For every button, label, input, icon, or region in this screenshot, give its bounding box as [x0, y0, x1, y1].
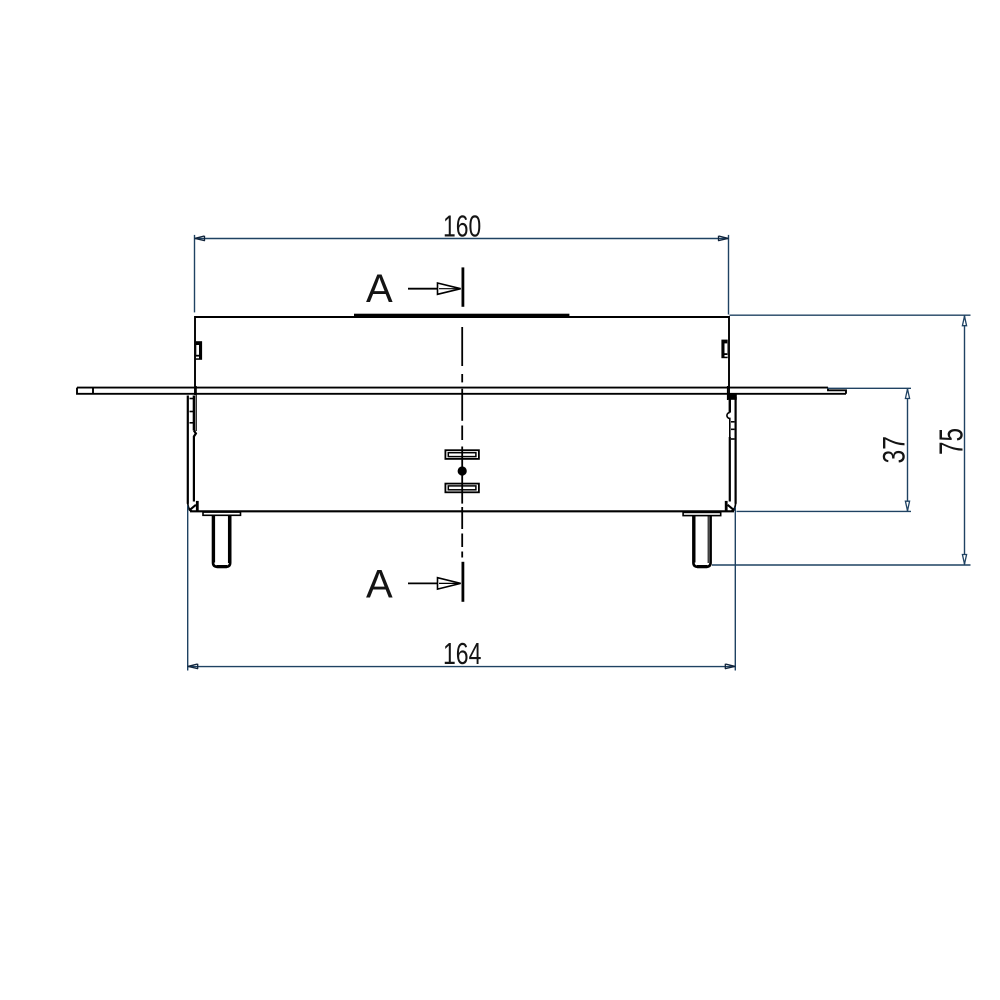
left foot plate: [203, 512, 241, 515]
top cover thick line: [354, 314, 569, 318]
dim 75 line: [964, 315, 966, 565]
dim 160 line: [195, 238, 729, 240]
svg-text:75: 75: [932, 428, 969, 455]
dim 164 extension right: [734, 507, 736, 671]
center slot upper: [445, 450, 479, 459]
dim 160 arrow right: [718, 236, 728, 241]
svg-text:160: 160: [443, 209, 481, 244]
svg-text:A: A: [366, 562, 393, 606]
dim 164 arrow right: [725, 664, 735, 669]
center dot: [458, 466, 467, 475]
section tick bottom: [461, 562, 464, 602]
dim 37 arrow top: [905, 389, 909, 399]
lower box right wall: [727, 386, 736, 504]
dim 37 extension top: [828, 387, 912, 389]
lower box right wall junction: [727, 394, 737, 400]
section arrow bottom: [408, 578, 461, 589]
section tick top: [461, 267, 464, 306]
dim 164 arrow left: [188, 664, 198, 669]
right leg: [693, 515, 710, 566]
dim 75 extension bottom: [712, 564, 971, 566]
dim 75 arrow bottom: [962, 555, 966, 565]
svg-text:A: A: [366, 267, 393, 311]
centerline dash-dot: [461, 327, 463, 558]
dim 164 line: [188, 666, 736, 668]
dim 37 arrow bottom: [905, 501, 909, 511]
center slot lower: [445, 484, 479, 493]
right side clip: [721, 340, 727, 359]
dim 37 line: [907, 388, 909, 511]
svg-text:164: 164: [443, 636, 481, 671]
lower box bottom line: [190, 510, 734, 512]
right foot plate: [683, 512, 721, 515]
top box outline: [195, 317, 729, 399]
dim 160 extension right: [728, 235, 730, 315]
bottom left corner bend: [188, 501, 199, 511]
dim 160 extension left: [194, 235, 196, 313]
dim 37 extension bottom: [737, 510, 912, 512]
left side clip: [196, 341, 202, 360]
lower box left wall: [188, 386, 196, 504]
svg-text:37: 37: [876, 436, 912, 464]
bottom right corner bend: [725, 501, 736, 511]
dim 75 extension top: [730, 314, 971, 316]
section arrow top: [408, 283, 461, 294]
dim 75 arrow top: [962, 316, 966, 326]
left leg: [213, 515, 230, 566]
flange plate: [77, 388, 846, 394]
dim 164 extension left: [187, 506, 189, 671]
dim 160 arrow left: [195, 236, 205, 241]
